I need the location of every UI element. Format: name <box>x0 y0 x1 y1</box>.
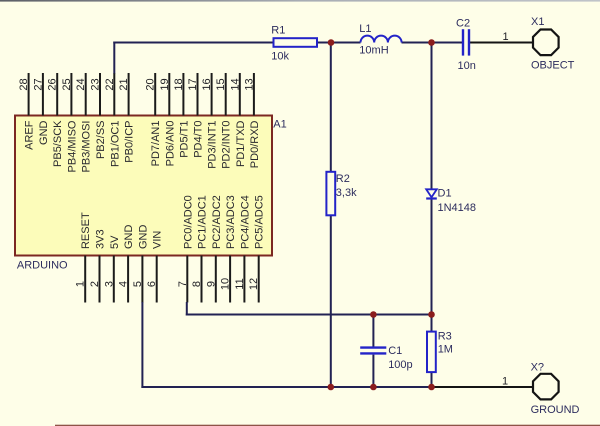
diode D1 triangle and cathode bar <box>426 189 437 198</box>
svg-text:OBJECT: OBJECT <box>531 60 575 72</box>
IC pin 7 (PC0/ADC0) bottom stub, number and name <box>177 195 195 302</box>
IC pin 9 (PC2/ADC2) bottom stub, number and name <box>205 195 223 302</box>
terminal X? GROUND octagon pad <box>533 374 559 400</box>
IC pin 14 (PD1/TXD) top stub, number and name <box>229 73 247 167</box>
IC pin 13 (PD0/RXD) top stub, number and name <box>243 73 261 168</box>
junction node top D1 tap <box>428 39 435 46</box>
IC pin 2 (3V3) bottom stub, number and name <box>89 229 107 302</box>
svg-text:PD6/AN0: PD6/AN0 <box>164 121 176 167</box>
svg-text:RESET: RESET <box>80 212 92 249</box>
svg-text:14: 14 <box>229 78 241 90</box>
svg-text:7: 7 <box>177 281 189 287</box>
svg-text:19: 19 <box>159 78 171 90</box>
svg-text:VIN: VIN <box>152 231 164 249</box>
IC pin 10 (PC3/ADC3) bottom stub, number and name <box>220 195 238 302</box>
svg-text:12: 12 <box>248 278 260 290</box>
svg-text:X1: X1 <box>531 16 544 28</box>
wire from pin 22 PB1/OC1 up to top net (vertical) <box>113 42 115 74</box>
svg-text:R2: R2 <box>336 173 350 185</box>
svg-text:PC1/ADC1: PC1/ADC1 <box>197 195 209 249</box>
svg-text:X?: X? <box>531 362 544 374</box>
svg-text:GND: GND <box>123 225 135 250</box>
svg-text:GND: GND <box>38 120 50 145</box>
svg-text:L1: L1 <box>359 23 371 35</box>
resistor R2 body <box>326 172 335 216</box>
junction node rail/R3 <box>428 384 435 391</box>
terminal X1 OBJECT octagon pad <box>533 30 559 56</box>
svg-text:PD2/INT0: PD2/INT0 <box>221 121 233 169</box>
IC pin 3 (5V) bottom stub, number and name <box>103 235 121 303</box>
IC pin 19 (PD6/AN0) top stub, number and name <box>159 73 177 166</box>
svg-text:D1: D1 <box>438 188 452 200</box>
svg-text:PD7/AN1: PD7/AN1 <box>150 121 162 167</box>
wire ADC0 net horizontal to D1/R3 branch <box>186 314 433 316</box>
wire R1 right to L1 left through node <box>317 42 361 44</box>
wire R2 branch: top node down to R2 top <box>330 42 332 173</box>
svg-text:PD0/RXD: PD0/RXD <box>249 120 261 168</box>
IC pin 24 (PB3/MOSI) top stub, number and name <box>75 73 93 172</box>
junction node rail/R2 <box>328 384 335 391</box>
svg-text:11: 11 <box>234 278 246 289</box>
svg-text:1: 1 <box>502 376 508 388</box>
svg-text:10: 10 <box>220 278 232 290</box>
svg-text:PB1/OC1: PB1/OC1 <box>109 121 121 167</box>
svg-text:20: 20 <box>145 78 157 90</box>
svg-text:10k: 10k <box>271 51 289 63</box>
IC A1 ARDUINO body <box>15 116 272 256</box>
svg-text:10n: 10n <box>458 60 476 72</box>
svg-text:3V3: 3V3 <box>95 229 107 249</box>
svg-text:PC3/ADC3: PC3/ADC3 <box>225 195 237 249</box>
IC pin 5 (GND) bottom stub, number and name <box>132 225 150 303</box>
svg-text:AREF: AREF <box>24 120 36 150</box>
resistor R3 body <box>427 332 436 373</box>
svg-text:C1: C1 <box>388 345 402 357</box>
svg-text:100p: 100p <box>388 359 412 371</box>
IC pin 23 (PB2/SS) top stub, number and name <box>90 73 108 159</box>
svg-text:R1: R1 <box>271 25 285 37</box>
IC pin 28 (AREF) top stub, number and name <box>18 73 35 150</box>
svg-text:6: 6 <box>146 281 158 287</box>
IC pin 21 (PB0/ICP) top stub, number and name <box>118 73 136 163</box>
IC pin 8 (PC1/ADC1) bottom stub, number and name <box>191 195 209 302</box>
IC pin 18 (PD5/T1) top stub, number and name <box>173 73 191 158</box>
wire L1 right to C2 left plate <box>402 42 463 44</box>
svg-text:17: 17 <box>187 78 199 90</box>
wire C1 bottom plate down to ground rail <box>372 355 374 388</box>
capacitor C2 plates <box>463 29 469 55</box>
svg-text:R3: R3 <box>438 331 452 343</box>
svg-text:5: 5 <box>132 281 144 287</box>
svg-text:3: 3 <box>103 281 115 287</box>
IC pin 12 (PC5/ADC5) bottom stub, number and name <box>248 195 266 302</box>
resistor R1 body <box>274 38 318 47</box>
svg-text:23: 23 <box>90 78 102 90</box>
IC pin 22 (PB1/OC1) top stub, number and name <box>104 73 122 167</box>
IC pin 16 (PD3/INT1) top stub, number and name <box>201 73 219 169</box>
svg-text:1N4148: 1N4148 <box>438 202 477 214</box>
svg-text:C2: C2 <box>456 18 470 30</box>
svg-text:2: 2 <box>89 281 101 287</box>
IC pin 6 (VIN) bottom stub, number and name <box>146 231 164 303</box>
svg-text:GROUND: GROUND <box>531 404 580 416</box>
wire D1 cathode down to ADC0 net node <box>431 200 433 316</box>
svg-text:15: 15 <box>215 78 227 90</box>
svg-text:22: 22 <box>104 78 116 90</box>
wire ground rail horizontal <box>141 386 432 388</box>
svg-text:PC2/ADC2: PC2/ADC2 <box>211 195 223 249</box>
svg-text:PB4/MISO: PB4/MISO <box>66 120 78 172</box>
svg-text:18: 18 <box>173 78 185 90</box>
svg-text:PD3/INT1: PD3/INT1 <box>207 121 219 169</box>
svg-text:1: 1 <box>503 31 509 43</box>
svg-text:28: 28 <box>18 78 30 90</box>
svg-text:PB3/MOSI: PB3/MOSI <box>81 121 93 173</box>
IC pin 11 (PC4/ADC4) bottom stub, number and name <box>234 195 252 302</box>
svg-text:27: 27 <box>32 78 44 90</box>
svg-text:PD1/TXD: PD1/TXD <box>235 120 247 167</box>
junction node ADC0/D1/R3 <box>428 311 435 318</box>
wire C1 branch: ADC0 net down to C1 top plate <box>372 314 374 347</box>
wire R3 bottom to ground rail <box>431 372 433 388</box>
wire from pin 5 GND down (vertical) <box>141 302 143 388</box>
svg-text:24: 24 <box>75 78 87 90</box>
svg-text:13: 13 <box>243 78 255 90</box>
wire from pin 7 PC0/ADC0 down (vertical) <box>186 302 188 316</box>
IC pin 15 (PD2/INT0) top stub, number and name <box>215 73 233 169</box>
wire / pin 1 of X1: C2 right plate to OBJECT terminal (black) <box>470 42 533 44</box>
wire D1 branch: top node down to D1 anode <box>431 42 433 190</box>
wire node down to R3 top <box>431 314 433 332</box>
svg-text:GND: GND <box>137 225 149 250</box>
junction node top R2 tap <box>328 39 335 46</box>
svg-text:PB2/SS: PB2/SS <box>95 121 107 160</box>
svg-text:21: 21 <box>118 78 130 90</box>
svg-text:10mH: 10mH <box>359 45 388 57</box>
wire R2 bottom down to ground rail (crosses ADC0 net, no junction) <box>330 215 332 388</box>
svg-text:1M: 1M <box>438 344 453 356</box>
svg-text:8: 8 <box>191 281 203 287</box>
inductor L1 coil <box>361 36 402 43</box>
svg-text:PC5/ADC5: PC5/ADC5 <box>254 195 266 249</box>
junction node ADC0/C1 <box>370 311 377 318</box>
svg-text:4: 4 <box>118 281 130 287</box>
svg-text:25: 25 <box>61 78 73 90</box>
IC pin 20 (PD7/AN1) top stub, number and name <box>145 73 163 166</box>
junction node rail/C1 <box>370 384 377 391</box>
svg-text:3,3k: 3,3k <box>336 187 357 199</box>
svg-text:9: 9 <box>205 281 217 287</box>
IC pin 25 (PB4/MISO) top stub, number and name <box>61 73 79 172</box>
svg-text:PC4/ADC4: PC4/ADC4 <box>239 195 251 249</box>
IC pin 4 (GND) bottom stub, number and name <box>118 225 136 303</box>
wire top net: OC1 corner to R1 left (horizontal) <box>113 42 273 44</box>
IC pin 1 (RESET) bottom stub, number and name <box>75 212 93 302</box>
IC pin 26 (PB5/SCK) top stub, number and name <box>47 73 64 167</box>
svg-text:PB5/SCK: PB5/SCK <box>52 120 64 167</box>
svg-text:26: 26 <box>47 78 59 90</box>
svg-text:16: 16 <box>201 78 213 90</box>
svg-text:PB0/ICP: PB0/ICP <box>124 121 136 163</box>
IC pin 27 (GND) top stub, number and name <box>32 73 50 145</box>
svg-text:5V: 5V <box>109 235 121 249</box>
svg-text:PD5/T1: PD5/T1 <box>178 121 190 158</box>
svg-text:A1: A1 <box>273 119 286 131</box>
svg-text:ARDUINO: ARDUINO <box>17 260 68 272</box>
IC pin 17 (PD4/T0) top stub, number and name <box>187 73 205 158</box>
svg-text:PD4/T0: PD4/T0 <box>193 121 205 158</box>
svg-text:PC0/ADC0: PC0/ADC0 <box>182 195 194 249</box>
capacitor C1 plates <box>360 348 386 354</box>
svg-text:1: 1 <box>75 281 87 287</box>
wire / pin 1 of X-GROUND: rail to GROUND terminal (black) <box>432 386 533 388</box>
